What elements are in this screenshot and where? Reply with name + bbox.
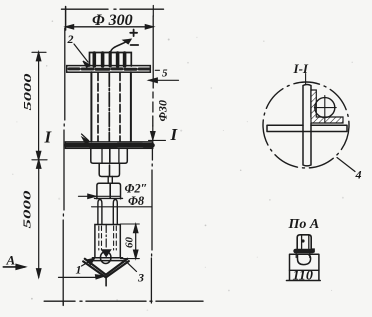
dimension 5000 upper: extension top bbox=[32, 51, 46, 53]
rod circle in section bbox=[315, 98, 335, 118]
leader 1 bbox=[82, 260, 93, 267]
weld gusset hatched bbox=[311, 90, 343, 123]
dimension 60 line bbox=[135, 224, 137, 258]
V tip inner bbox=[83, 261, 129, 277]
rod 1 bbox=[98, 200, 102, 225]
dimension Ф30 arrow bbox=[152, 126, 154, 140]
neck bbox=[108, 177, 112, 184]
По А shank lines bbox=[296, 254, 310, 258]
svg-text:2: 2 bbox=[67, 32, 74, 46]
svg-text:5000: 5000 bbox=[23, 189, 34, 228]
dimension Ф300 right arrow bbox=[145, 25, 153, 29]
polarity +- symbol bbox=[130, 30, 137, 37]
svg-text:5000: 5000 bbox=[23, 72, 34, 110]
top cap (bolt block) bbox=[90, 53, 132, 67]
center line through column bbox=[109, 149, 112, 199]
svg-text:60: 60 bbox=[124, 237, 136, 249]
dimension 60 extensions bbox=[121, 224, 140, 259]
svg-text:I-I: I-I bbox=[292, 62, 309, 76]
right extension line tick top bbox=[152, 6, 154, 17]
leader 4 bbox=[337, 158, 355, 172]
block A under plate bbox=[91, 149, 128, 164]
leader 3 bbox=[124, 260, 137, 272]
left extension bottom tail bbox=[62, 301, 64, 306]
dimension 5000 upper arrows bbox=[36, 52, 40, 61]
svg-text:5: 5 bbox=[162, 68, 168, 80]
block B bbox=[99, 163, 119, 176]
svg-text:1: 1 bbox=[76, 263, 82, 277]
dimension Ф300 line bbox=[66, 26, 154, 28]
detail vertical plate bbox=[303, 85, 311, 166]
left extension line (long, down to ground) bbox=[63, 28, 65, 305]
loop eye bbox=[100, 252, 111, 264]
pipe center line bbox=[108, 73, 110, 142]
svg-text:Φ 300: Φ 300 bbox=[92, 12, 133, 29]
По А base block bbox=[290, 254, 319, 280]
leader Ф2" bbox=[79, 195, 121, 197]
По А bottom line bbox=[287, 280, 321, 282]
coupling block bbox=[97, 183, 121, 199]
svg-text:A: A bbox=[6, 253, 16, 268]
По А loop U bbox=[298, 255, 311, 265]
svg-text:4: 4 bbox=[355, 168, 362, 182]
svg-text:Φ8: Φ8 bbox=[128, 194, 145, 208]
svg-text:3: 3 bbox=[137, 271, 144, 285]
leader Ф8 line bbox=[92, 206, 152, 208]
dimension 5000 lower arrows bbox=[37, 160, 41, 169]
detail horizontal plate bbox=[267, 125, 347, 131]
svg-text:I: I bbox=[170, 125, 179, 144]
flange plate 2 (top) bbox=[67, 66, 151, 73]
hidden rods in block bbox=[99, 226, 117, 250]
svg-text:I: I bbox=[44, 128, 53, 147]
block center line bbox=[105, 225, 107, 249]
apex level line with arrow bbox=[59, 276, 98, 278]
view A arrow bbox=[3, 266, 25, 268]
dimension Ф30 tick bbox=[149, 139, 166, 141]
По А nut band bbox=[296, 249, 313, 254]
right extension line (long, down to ground) bbox=[151, 16, 153, 303]
detail chain circle bbox=[263, 82, 349, 168]
pipe outer wall left bbox=[90, 72, 92, 141]
flange plate (bottom) bbox=[65, 142, 152, 148]
top chain line bbox=[62, 8, 164, 10]
По А bolt head bbox=[297, 235, 311, 249]
ground chain line bbox=[44, 300, 203, 302]
tip housing block bbox=[95, 225, 120, 258]
arrow at bottom plate bbox=[82, 134, 89, 141]
dimension 5000 dim line bbox=[38, 52, 40, 277]
apex center stub bbox=[105, 278, 107, 286]
block bottom lips bbox=[92, 257, 122, 259]
svg-text:По A: По A bbox=[288, 217, 320, 232]
svg-text:Φ30: Φ30 bbox=[156, 100, 170, 121]
plate thickness 5 leader bbox=[149, 79, 179, 81]
dimension Ф300 left arrow bbox=[66, 25, 74, 29]
left extension line tick top bbox=[65, 7, 67, 31]
По А divider bbox=[290, 269, 319, 271]
rod 2 bbox=[113, 200, 117, 225]
V tip outer bbox=[85, 259, 128, 275]
pipe inner hidden line left bbox=[97, 73, 99, 142]
polarity leader curve bbox=[111, 40, 130, 66]
pipe inner hidden line right bbox=[119, 73, 121, 142]
label 2 leader bbox=[74, 44, 88, 62]
pipe outer wall right bbox=[130, 72, 132, 141]
dimension 5000 upper: extension bottom bbox=[32, 159, 47, 161]
